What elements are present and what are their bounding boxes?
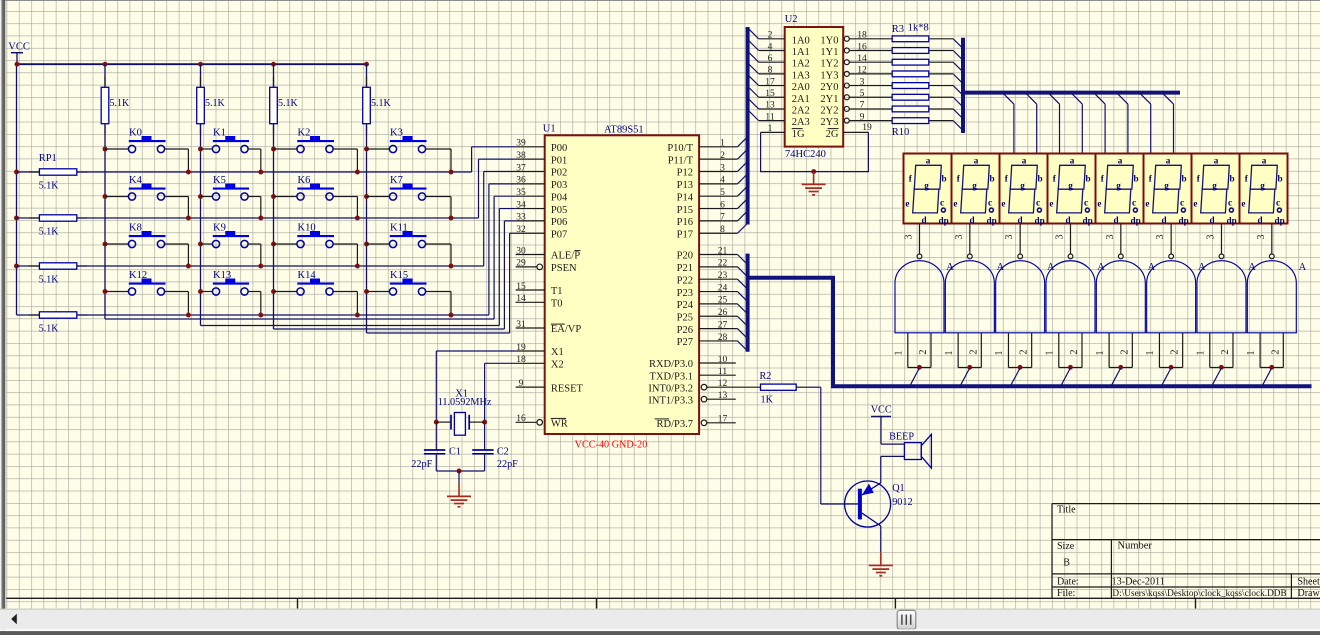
svg-text:A: A [1299,262,1307,273]
svg-text:c: c [1036,197,1040,207]
svg-text:TXD/P3.1: TXD/P3.1 [650,371,693,382]
svg-text:dp: dp [1227,215,1237,225]
svg-text:A: A [946,262,954,273]
svg-text:1: 1 [994,351,1005,356]
svg-text:c: c [1276,197,1280,207]
svg-text:2Y1: 2Y1 [820,94,838,105]
svg-text:P20: P20 [677,251,693,262]
svg-text:e: e [1049,198,1053,208]
svg-text:12: 12 [857,66,867,76]
svg-text:C2: C2 [497,447,509,458]
svg-text:1K: 1K [761,395,774,406]
svg-text:1Y2: 1Y2 [820,59,838,70]
svg-text:74HC240: 74HC240 [785,149,826,160]
svg-text:P07: P07 [551,229,567,240]
svg-text:a: a [1262,155,1267,165]
svg-text:11: 11 [718,367,727,377]
svg-text:1A1: 1A1 [792,47,810,58]
svg-text:P27: P27 [677,337,693,348]
svg-text:5.1K: 5.1K [371,98,392,109]
svg-text:21: 21 [718,246,728,256]
svg-text:ALE/P: ALE/P [551,251,580,262]
svg-text:d: d [921,215,926,225]
svg-text:D:\Users\kqss\Desktop\clock_kq: D:\Users\kqss\Desktop\clock_kqss\clock.D… [1112,589,1286,599]
svg-text:c: c [1132,197,1136,207]
svg-text:5.1K: 5.1K [39,275,60,286]
svg-text:2Y0: 2Y0 [820,82,838,93]
svg-text:13: 13 [765,101,775,111]
svg-text:e: e [1097,198,1101,208]
svg-text:c: c [1084,197,1088,207]
svg-text:WR: WR [551,419,568,430]
svg-text:T1: T1 [551,286,563,297]
svg-text:RD/P3.7: RD/P3.7 [657,419,693,430]
svg-text:P00: P00 [551,143,567,154]
svg-text:2: 2 [1170,350,1181,355]
svg-text:24: 24 [718,283,728,293]
svg-text:e: e [1001,198,1005,208]
svg-text:9: 9 [519,379,524,389]
svg-text:X1: X1 [551,347,564,358]
svg-text:K12: K12 [129,270,147,281]
svg-text:b: b [1230,174,1235,184]
svg-text:a: a [926,155,931,165]
svg-text:R3: R3 [892,24,904,35]
svg-text:5.1K: 5.1K [39,324,60,335]
svg-text:1: 1 [944,351,955,356]
svg-text:R10: R10 [892,127,910,138]
svg-text:1: 1 [1246,351,1257,356]
svg-text:c: c [940,197,944,207]
svg-text:1G: 1G [792,129,805,140]
svg-text:INT1/P3.3: INT1/P3.3 [648,395,693,406]
svg-text:RP1: RP1 [39,153,57,164]
svg-text:d: d [1257,215,1262,225]
svg-text:1: 1 [1195,351,1206,356]
svg-text:5: 5 [720,188,725,198]
svg-text:5.1K: 5.1K [110,98,131,109]
svg-text:17: 17 [765,77,775,87]
svg-text:X2: X2 [551,360,564,371]
svg-text:P26: P26 [677,325,693,336]
svg-text:1: 1 [1095,351,1106,356]
svg-text:K11: K11 [390,223,408,234]
svg-text:P01: P01 [551,155,567,166]
svg-text:2A3: 2A3 [792,117,810,128]
svg-text:15: 15 [516,282,526,292]
svg-text:32: 32 [516,225,526,235]
svg-text:b: b [1134,174,1139,184]
svg-text:File:: File: [1057,588,1075,599]
svg-text:g: g [1260,180,1265,190]
svg-text:1Y3: 1Y3 [820,70,838,81]
svg-text:c: c [1180,197,1184,207]
svg-text:PSEN: PSEN [551,263,577,274]
svg-text:e: e [1193,198,1197,208]
svg-text:26: 26 [718,308,728,318]
svg-text:22pF: 22pF [497,459,518,470]
svg-text:RXD/P3.0: RXD/P3.0 [649,359,693,370]
svg-text:a: a [1214,155,1219,165]
svg-text:b: b [1182,174,1187,184]
svg-text:1: 1 [720,139,725,149]
svg-text:3: 3 [1054,235,1065,240]
svg-text:5.1K: 5.1K [278,98,299,109]
svg-text:b: b [990,174,995,184]
svg-text:4: 4 [768,42,773,52]
svg-text:Number: Number [1118,541,1153,552]
svg-text:g: g [1164,180,1169,190]
svg-text:EA/VP: EA/VP [551,324,581,335]
svg-text:38: 38 [516,151,526,161]
svg-text:c: c [1228,197,1232,207]
svg-text:R2: R2 [760,371,772,382]
svg-text:37: 37 [516,163,526,173]
svg-text:A: A [1248,262,1256,273]
svg-text:Sheet: Sheet [1298,576,1320,587]
svg-text:P14: P14 [677,192,694,203]
svg-text:13-Dec-2011: 13-Dec-2011 [1112,577,1165,588]
svg-text:e: e [905,198,909,208]
svg-text:5.1K: 5.1K [39,181,60,192]
svg-text:6: 6 [720,200,725,210]
svg-text:3: 3 [904,235,915,240]
svg-text:2: 2 [1019,350,1030,355]
svg-text:P12: P12 [677,168,693,179]
svg-text:A: A [1097,262,1105,273]
svg-text:dp: dp [1035,215,1045,225]
svg-text:3: 3 [1105,235,1116,240]
svg-text:Q1: Q1 [892,483,904,494]
svg-text:1Y1: 1Y1 [820,47,838,58]
svg-text:3: 3 [1256,235,1267,240]
svg-text:35: 35 [516,188,526,198]
svg-text:P24: P24 [677,300,694,311]
svg-text:9012: 9012 [892,497,912,508]
svg-text:g: g [972,180,977,190]
svg-text:g: g [1212,180,1217,190]
svg-text:K1: K1 [213,128,226,139]
svg-text:dp: dp [987,215,997,225]
svg-text:7: 7 [860,101,865,111]
svg-text:dp: dp [1275,215,1285,225]
svg-text:15: 15 [765,89,775,99]
svg-text:U1: U1 [543,124,556,135]
svg-text:39: 39 [516,139,526,149]
svg-text:8: 8 [720,225,725,235]
svg-text:1Y0: 1Y0 [820,35,838,46]
svg-text:2: 2 [918,350,929,355]
svg-text:34: 34 [516,200,526,210]
svg-text:22: 22 [718,259,728,269]
svg-text:2: 2 [1119,350,1130,355]
svg-text:d: d [1209,215,1214,225]
svg-text:INT0/P3.2: INT0/P3.2 [648,383,693,394]
svg-text:P13: P13 [677,180,693,191]
svg-text:K2: K2 [298,128,311,139]
svg-text:3: 3 [860,77,865,87]
svg-text:1: 1 [1145,351,1156,356]
svg-text:19: 19 [862,123,872,133]
svg-text:K7: K7 [390,175,403,186]
svg-text:6: 6 [768,54,773,64]
svg-text:1k*8: 1k*8 [908,23,929,34]
svg-text:1: 1 [1044,351,1055,356]
svg-text:Size: Size [1057,541,1075,552]
svg-text:14: 14 [857,54,867,64]
svg-text:3: 3 [1004,235,1015,240]
svg-text:P04: P04 [551,192,568,203]
svg-text:AT89S51: AT89S51 [604,125,644,136]
svg-text:36: 36 [516,176,526,186]
svg-text:P23: P23 [677,288,693,299]
svg-text:VCC: VCC [871,405,892,416]
svg-text:VCC: VCC [8,42,30,53]
svg-text:2: 2 [720,151,725,161]
svg-text:2A0: 2A0 [792,82,810,93]
svg-text:d: d [1113,215,1118,225]
svg-text:BEEP: BEEP [889,432,914,443]
svg-text:25: 25 [718,296,728,306]
svg-text:K10: K10 [298,223,316,234]
svg-text:d: d [1065,215,1070,225]
svg-text:g: g [1068,180,1073,190]
svg-text:K13: K13 [213,270,231,281]
svg-text:c: c [988,197,992,207]
svg-text:2Y2: 2Y2 [820,105,838,116]
svg-text:2: 2 [968,350,979,355]
svg-text:VCC-40 GND-20: VCC-40 GND-20 [575,440,648,451]
svg-text:13: 13 [718,391,728,401]
svg-text:b: b [1038,174,1043,184]
svg-text:K14: K14 [298,270,317,281]
svg-text:a: a [1070,155,1075,165]
svg-text:dp: dp [1179,215,1189,225]
svg-text:3: 3 [720,163,725,173]
svg-text:2: 2 [1220,350,1231,355]
svg-text:8: 8 [768,66,773,76]
svg-text:12: 12 [718,379,728,389]
svg-text:P10/T: P10/T [667,143,693,154]
svg-text:1A0: 1A0 [792,35,810,46]
svg-text:P06: P06 [551,217,567,228]
svg-text:K5: K5 [213,175,226,186]
svg-text:K9: K9 [213,223,226,234]
svg-text:2: 2 [1270,350,1281,355]
svg-text:e: e [1241,198,1245,208]
svg-text:B: B [1063,558,1070,569]
svg-text:P03: P03 [551,180,567,191]
svg-text:dp: dp [939,215,949,225]
svg-text:33: 33 [516,213,526,223]
svg-text:d: d [1161,215,1166,225]
svg-text:K3: K3 [390,128,403,139]
svg-text:5.1K: 5.1K [39,227,60,238]
svg-text:28: 28 [718,333,728,343]
svg-text:A: A [997,262,1005,273]
svg-text:Date:: Date: [1057,577,1079,588]
svg-text:g: g [1020,180,1025,190]
svg-text:Drawn: Drawn [1298,588,1320,599]
svg-text:3: 3 [1155,235,1166,240]
svg-text:b: b [1086,174,1091,184]
svg-text:10: 10 [718,355,728,365]
svg-text:K4: K4 [129,175,143,186]
svg-text:2: 2 [768,31,773,41]
svg-text:A: A [1148,262,1156,273]
svg-text:P15: P15 [677,205,693,216]
svg-text:b: b [1278,174,1283,184]
svg-text:P17: P17 [677,229,693,240]
svg-text:5.1K: 5.1K [205,98,226,109]
svg-text:a: a [1118,155,1123,165]
svg-text:2: 2 [1069,350,1080,355]
svg-text:16: 16 [516,414,526,424]
svg-text:9: 9 [860,112,865,122]
svg-text:17: 17 [718,415,728,425]
svg-text:2G: 2G [826,129,839,140]
svg-text:18: 18 [516,355,526,365]
svg-text:dp: dp [1083,215,1093,225]
svg-text:14: 14 [516,294,526,304]
svg-text:e: e [953,198,957,208]
svg-text:dp: dp [1131,215,1141,225]
svg-text:27: 27 [718,320,728,330]
svg-text:Title: Title [1057,505,1076,516]
svg-text:1A2: 1A2 [792,59,810,70]
svg-text:P05: P05 [551,205,567,216]
svg-text:U2: U2 [785,14,798,25]
svg-text:P16: P16 [677,217,693,228]
svg-text:31: 31 [516,320,526,330]
svg-text:11: 11 [765,112,774,122]
svg-text:16: 16 [857,42,867,52]
svg-text:P25: P25 [677,312,693,323]
svg-text:5: 5 [860,89,865,99]
svg-text:K8: K8 [129,223,142,234]
svg-text:1A3: 1A3 [792,70,810,81]
svg-text:K6: K6 [298,175,311,186]
svg-text:22pF: 22pF [411,459,432,470]
svg-text:1: 1 [894,351,905,356]
svg-text:P21: P21 [677,263,693,274]
svg-text:g: g [924,180,929,190]
svg-text:19: 19 [516,343,526,353]
svg-text:2A1: 2A1 [792,94,810,105]
svg-text:K0: K0 [129,128,142,139]
svg-text:18: 18 [857,31,867,41]
svg-text:7: 7 [720,213,725,223]
svg-text:4: 4 [720,176,725,186]
svg-text:2Y3: 2Y3 [820,117,838,128]
svg-text:1: 1 [768,124,773,134]
svg-text:a: a [974,155,979,165]
svg-text:3: 3 [954,235,965,240]
svg-text:g: g [1116,180,1121,190]
svg-text:P22: P22 [677,275,693,286]
svg-text:11.0592MHz: 11.0592MHz [438,397,492,408]
svg-text:e: e [1145,198,1149,208]
svg-text:30: 30 [516,246,526,256]
svg-text:23: 23 [718,271,728,281]
svg-text:P11/T: P11/T [668,155,694,166]
svg-text:T0: T0 [551,299,563,310]
svg-text:K15: K15 [390,270,408,281]
svg-text:P02: P02 [551,168,567,179]
svg-text:29: 29 [516,259,526,269]
svg-text:a: a [1022,155,1027,165]
svg-text:2A2: 2A2 [792,105,810,116]
svg-text:3: 3 [1205,235,1216,240]
svg-text:RESET: RESET [551,383,584,394]
svg-text:a: a [1166,155,1171,165]
svg-text:A: A [1198,262,1206,273]
svg-text:C1: C1 [449,447,461,458]
svg-text:b: b [942,174,947,184]
